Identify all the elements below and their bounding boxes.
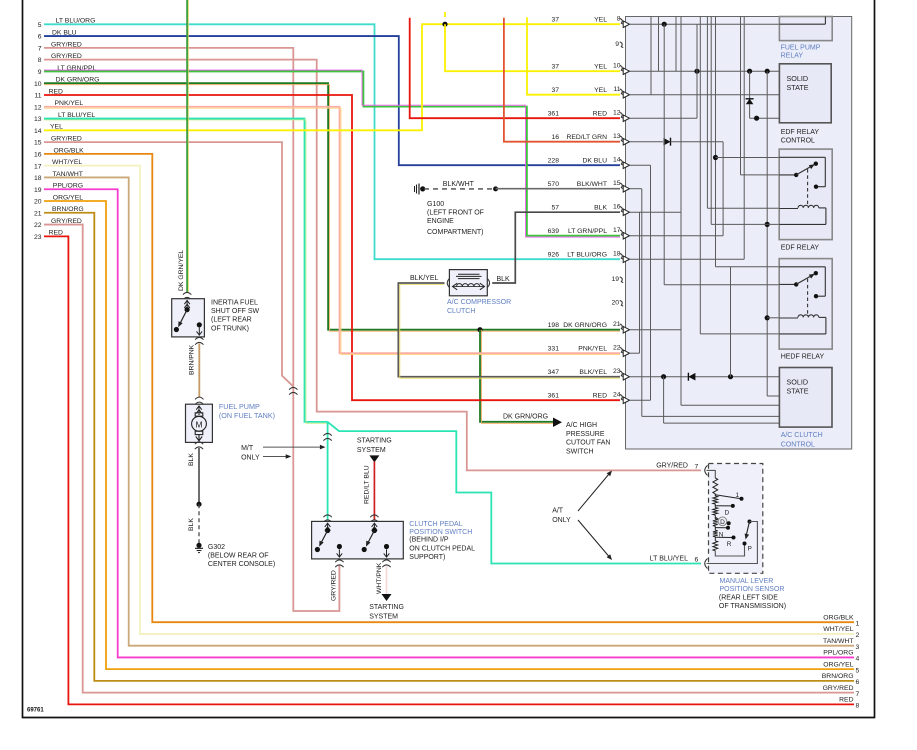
- svg-text:13: 13: [34, 116, 42, 123]
- left connector pin 17 label WHT/YEL: [34, 159, 82, 170]
- svg-text:INERTIA FUEL: INERTIA FUEL: [211, 299, 258, 306]
- net pin15 570 BLKWHT to A/C clutch control: [630, 189, 780, 417]
- label DK GRN/ORG on branch: [503, 414, 548, 421]
- svg-text:YEL: YEL: [594, 16, 607, 23]
- connector pin 8: [551, 16, 629, 28]
- label EDF RELAY: [781, 245, 820, 252]
- fuel pump relay box (cropped): [779, 17, 832, 41]
- svg-text:BLK: BLK: [188, 453, 195, 466]
- clutch switch pin GRY/RED contact: [337, 544, 343, 558]
- svg-text:STATE: STATE: [787, 83, 809, 92]
- wire LT BLU/YEL branch down to clutch pedal position switch: [327, 422, 329, 520]
- svg-text:(LEFT FRONT OF: (LEFT FRONT OF: [427, 210, 484, 217]
- inline connectors above clutch pedal switch: [323, 515, 378, 522]
- net pin23 347 BLKYEL with diode to A/C clutch control: [630, 373, 780, 381]
- EDF relay: [779, 149, 832, 240]
- label A/C HIGH PRESSURE CUTOUT FAN SWITCH: [566, 422, 610, 455]
- svg-text:37: 37: [551, 87, 559, 94]
- inline connector on LT BLU/YEL branch: [323, 433, 331, 440]
- left connector pin 20 label ORG/YEL: [34, 194, 83, 205]
- svg-text:8: 8: [617, 16, 621, 23]
- left connector pin 8 label GRY/RED: [38, 53, 82, 64]
- label BLK (near G302): [188, 518, 195, 531]
- connector pin 23: [548, 368, 630, 380]
- inertia switch output contact: [197, 322, 203, 335]
- wire PNK/YEL (row 12 to pin 22, 331): [44, 107, 620, 355]
- svg-text:23: 23: [34, 234, 42, 241]
- svg-text:24: 24: [613, 392, 621, 399]
- svg-text:5: 5: [38, 22, 42, 29]
- svg-text:SYSTEM: SYSTEM: [357, 447, 386, 454]
- clutch switch pin WHT/PNK contact: [384, 544, 390, 558]
- connector pin 13: [551, 133, 629, 145]
- svg-text:ORG/BLK: ORG/BLK: [823, 614, 854, 621]
- label STARTING SYSTEM (bottom): [369, 604, 404, 620]
- bottom rail label RED 8: [839, 697, 859, 710]
- svg-text:CONTROL: CONTROL: [781, 442, 815, 449]
- wire LT BLU/YEL (row 13, M/T clutch switch and A/T sensor pin 6): [44, 119, 328, 424]
- svg-text:926: 926: [548, 251, 560, 258]
- connector pin 21: [548, 321, 630, 333]
- label MANUAL LEVER POSITION SENSOR (REAR LEFT SIDE OF TRANSMISSION): [719, 578, 786, 610]
- wire LT BLU/YEL jog to manual lever position sensor pin 6: [328, 422, 701, 564]
- svg-text:6: 6: [38, 34, 42, 41]
- bottom rail label PPL/ORG 4: [823, 650, 859, 663]
- wire BLK (A/C clutch to pin 16, 57): [492, 212, 620, 283]
- connector pin 18: [548, 251, 630, 263]
- left connector pin 6 label DK BLU: [38, 29, 77, 40]
- svg-text:BRN/PNK: BRN/PNK: [189, 344, 196, 375]
- connector pin 16: [551, 204, 629, 216]
- wire ORG/BLK (row 16 to bottom rail 1): [44, 154, 854, 622]
- svg-text:347: 347: [548, 369, 560, 376]
- svg-text:OF TRANSMISSION): OF TRANSMISSION): [719, 603, 786, 610]
- svg-text:YEL: YEL: [594, 63, 607, 70]
- svg-text:6: 6: [856, 679, 860, 686]
- label LT BLU/YEL 6 (sensor pin): [650, 556, 699, 564]
- net pin13 16 RED/LTGRN with diode: [630, 138, 724, 146]
- inline connector at inertia switch input: [183, 292, 191, 299]
- left connector pin 21 label BRN/ORG: [34, 206, 84, 217]
- label G100 (LEFT FRONT OF ENGINE COMPARTMENT): [427, 201, 484, 236]
- connector pin 14: [548, 157, 630, 169]
- label EDF RELAY CONTROL: [781, 129, 820, 145]
- svg-text:DK BLU: DK BLU: [582, 157, 607, 164]
- net pin11 37YEL into EDF relay control: [630, 94, 780, 96]
- wire YEL branch to pin 10: [445, 24, 620, 71]
- label BLK: [497, 276, 511, 283]
- inline connectors below clutch pedal switch: [335, 560, 391, 567]
- bottom rail label ORG/BLK 1: [823, 614, 859, 627]
- svg-text:POSITION SENSOR: POSITION SENSOR: [720, 586, 785, 593]
- svg-text:G302: G302: [208, 544, 225, 551]
- wire BRN/PNK (inertia switch to fuel pump): [198, 344, 200, 398]
- svg-text:FUEL PUMP: FUEL PUMP: [781, 45, 821, 52]
- svg-text:RED/LT GRN: RED/LT GRN: [566, 134, 607, 141]
- PCM / relay panel background: [626, 17, 852, 450]
- wire RED/LT GRN (from top, 16 to pin 13): [504, 18, 620, 142]
- svg-text:10: 10: [34, 81, 42, 88]
- svg-text:(BELOW REAR OF: (BELOW REAR OF: [208, 553, 269, 560]
- svg-text:GRY/RED: GRY/RED: [331, 570, 338, 601]
- clutch coil symbol with arrows: [453, 283, 485, 290]
- svg-text:LT GRN/PPL: LT GRN/PPL: [568, 228, 607, 235]
- label BLK/WHT (over dashed segment): [443, 181, 475, 188]
- left connector pin 10 label DK GRN/ORG: [34, 77, 99, 88]
- label GRY/RED (clutch switch output): [331, 570, 338, 601]
- net HEDF coil feed: [767, 317, 779, 319]
- svg-text:D: D: [720, 519, 725, 526]
- svg-text:STARTING: STARTING: [369, 604, 404, 611]
- svg-text:RED: RED: [593, 392, 607, 399]
- svg-text:SUPPORT): SUPPORT): [409, 554, 445, 561]
- left connector pin 11 label RED: [34, 88, 63, 99]
- junction node on DK GRN/ORG: [477, 327, 482, 332]
- svg-text:A/C CLUTCH: A/C CLUTCH: [781, 432, 823, 439]
- ground G100 symbol: [415, 184, 426, 195]
- svg-text:69761: 69761: [27, 708, 44, 714]
- svg-text:GRY/RED: GRY/RED: [823, 685, 854, 692]
- bus vertical x730.5 (HEDF NO to pin23): [730, 267, 732, 377]
- svg-text:21: 21: [613, 321, 621, 328]
- svg-text:BLK: BLK: [594, 204, 607, 211]
- svg-text:7: 7: [695, 463, 699, 470]
- svg-text:STATE: STATE: [787, 387, 809, 396]
- top stub verticals: [651, 17, 676, 95]
- svg-text:A/T: A/T: [552, 508, 564, 515]
- label WHT/PNK: [376, 562, 383, 594]
- svg-text:D: D: [725, 510, 730, 517]
- sensor wiper to pin 6: [707, 522, 758, 564]
- wire DK GRN/ORG branch to A/C high pressure cutout fan switch: [480, 330, 553, 424]
- clutch switch blade 2: [362, 531, 375, 553]
- svg-text:37: 37: [551, 16, 559, 23]
- bottom rail label BRN/ORG 6: [822, 673, 860, 686]
- label M/T ONLY with arrows: [241, 445, 325, 462]
- wire LT BLU/ORG (row 5 to pin 18, 926): [44, 24, 620, 259]
- svg-text:BLK: BLK: [188, 518, 195, 531]
- fuel pump bottom pin arrow: [196, 435, 202, 441]
- svg-text:MANUAL LEVER: MANUAL LEVER: [720, 578, 774, 585]
- connector pin 12: [548, 110, 630, 122]
- A/C compressor clutch terminal brackets: [447, 278, 489, 288]
- svg-text:ORG/YEL: ORG/YEL: [823, 661, 853, 668]
- svg-text:P: P: [748, 546, 752, 553]
- svg-text:YEL: YEL: [594, 87, 607, 94]
- label FUEL PUMP RELAY: [781, 45, 821, 60]
- svg-text:CLUTCH PEDAL: CLUTCH PEDAL: [409, 521, 462, 528]
- bus vertical x697: [696, 24, 698, 118]
- net pin22 331 PNKYEL up bus: [630, 212, 640, 353]
- connector pin 15: [548, 180, 630, 192]
- wire RED/LT BLU (starting system to clutch switch): [373, 462, 375, 520]
- svg-text:9: 9: [615, 41, 619, 48]
- svg-text:6: 6: [695, 556, 699, 563]
- svg-text:SOLID: SOLID: [787, 74, 809, 83]
- left connector pin 19 label PPL/ORG: [34, 183, 83, 194]
- wire TAN/WHT (row 18 to bottom rail 3): [44, 177, 854, 645]
- svg-text:G100: G100: [427, 201, 444, 208]
- svg-text:EDF RELAY: EDF RELAY: [781, 245, 820, 252]
- svg-text:21: 21: [34, 210, 42, 217]
- svg-text:14: 14: [34, 128, 42, 135]
- svg-text:FUEL PUMP: FUEL PUMP: [219, 402, 260, 411]
- wire YEL from top to pin 11: [527, 17, 620, 94]
- svg-text:CLUTCH: CLUTCH: [447, 308, 475, 315]
- svg-text:SYSTEM: SYSTEM: [369, 614, 398, 621]
- svg-text:12: 12: [34, 104, 42, 111]
- svg-text:639: 639: [548, 228, 560, 235]
- connector pin 9: [615, 41, 623, 48]
- svg-text:8: 8: [856, 703, 860, 710]
- svg-text:14: 14: [613, 157, 621, 164]
- svg-text:BLK/YEL: BLK/YEL: [410, 275, 439, 282]
- sensor pin brackets: [705, 465, 708, 568]
- svg-text:570: 570: [548, 181, 560, 188]
- svg-text:5: 5: [856, 667, 860, 674]
- wire BLK/WHT dashed (G100 to splice): [424, 188, 493, 190]
- svg-text:3: 3: [856, 644, 860, 651]
- sensor tap 1: [715, 492, 743, 501]
- sensor tap D: [715, 504, 735, 517]
- wire PPL/ORG (row 19 to bottom rail 4): [44, 189, 854, 657]
- fuel pump top pin arrow: [196, 406, 202, 415]
- svg-text:18: 18: [613, 251, 621, 258]
- feed triangle from starting system: [369, 455, 379, 462]
- wire BRN/ORG (row 21 to bottom rail 6): [44, 213, 854, 681]
- manual lever position sensor dashed box: [709, 464, 763, 574]
- label BRN/PNK: [189, 344, 196, 375]
- left connector pin 16 label ORG/BLK: [34, 147, 84, 158]
- svg-text:361: 361: [548, 392, 560, 399]
- label BLK (below fuel pump): [188, 453, 195, 466]
- svg-text:ON CLUTCH PEDAL: ON CLUTCH PEDAL: [409, 545, 475, 552]
- bottom rail label ORG/YEL 5: [823, 661, 859, 674]
- wire DK GRN/ORG (row 10 to pin 21, 198): [44, 83, 620, 331]
- diode branch x749.6 (37YEL bus to solid state): [746, 71, 780, 121]
- splice node on BLK/WHT: [493, 186, 498, 191]
- svg-text:DK GRN/YEL: DK GRN/YEL: [178, 250, 185, 291]
- svg-text:23: 23: [613, 368, 621, 375]
- connector pin 11: [551, 86, 629, 98]
- left connector pin 9 label LT GRN/PPL: [38, 65, 97, 76]
- net HEDF coil return (bottom): [700, 333, 779, 335]
- clutch switch pin 2 arrow: [372, 523, 378, 533]
- svg-text:19: 19: [34, 187, 42, 194]
- svg-text:BLK: BLK: [497, 276, 511, 283]
- svg-text:331: 331: [548, 345, 560, 352]
- svg-text:WHT/YEL: WHT/YEL: [823, 626, 853, 633]
- svg-text:BLK/WHT: BLK/WHT: [577, 181, 607, 188]
- svg-text:ONLY: ONLY: [552, 517, 571, 524]
- svg-text:EDF RELAY: EDF RELAY: [781, 129, 820, 136]
- HEDF relay: [779, 259, 832, 350]
- net pin24 361RED: [630, 399, 651, 401]
- svg-text:11: 11: [34, 93, 41, 100]
- svg-text:PRESSURE: PRESSURE: [566, 431, 605, 438]
- inline connector above fuel pump: [195, 397, 203, 404]
- bus vertical x664 (pin8 to HEDF common): [663, 24, 665, 285]
- connector pin 19: [611, 276, 623, 283]
- left connector pin 12 label PNK/YEL: [34, 100, 83, 111]
- net EDF relay NO output: [716, 157, 780, 159]
- svg-text:361: 361: [548, 110, 560, 117]
- sensor tap R: [715, 536, 735, 549]
- svg-text:LT BLU/ORG: LT BLU/ORG: [567, 251, 607, 258]
- EDF relay control solid state box: [779, 64, 831, 123]
- svg-text:(LEFT REAR: (LEFT REAR: [211, 317, 252, 324]
- net HEDF relay common feed: [664, 284, 779, 286]
- wire YEL (row 14 up to pin 8 / 37 YEL bus): [44, 24, 620, 130]
- net pin16 57 BLK bus down: [630, 17, 780, 406]
- wire LT GRN/PPL (row 9 to pin 17, 639): [44, 70, 620, 237]
- svg-text:(REAR LEFT SIDE: (REAR LEFT SIDE: [719, 595, 778, 602]
- connector pin 22: [548, 345, 630, 357]
- sensor tap D circled: [715, 517, 730, 526]
- svg-text:HEDF RELAY: HEDF RELAY: [781, 353, 825, 360]
- bottom rail label GRY/RED 7: [823, 685, 860, 698]
- label FUEL PUMP (ON FUEL TANK): [219, 402, 275, 420]
- bus vertical x715.5 (top to HEDF NO): [713, 17, 779, 267]
- svg-text:15: 15: [613, 180, 621, 187]
- svg-text:RED: RED: [593, 110, 607, 117]
- svg-text:228: 228: [548, 157, 560, 164]
- svg-text:LT BLU/YEL: LT BLU/YEL: [650, 556, 688, 563]
- wire RED (row 11 to pin 24, 361): [44, 95, 620, 400]
- clutch switch pin 1 arrow: [325, 523, 331, 533]
- left connector pin 7 label GRY/RED: [38, 41, 82, 52]
- svg-text:SOLID: SOLID: [787, 378, 809, 387]
- net EDF coil return: [711, 17, 779, 225]
- bus vertical x767.2 (37YEL bus to A/C clutch control): [765, 71, 780, 396]
- label RED/LT BLU: [364, 465, 371, 504]
- svg-text:M/T: M/T: [241, 445, 254, 452]
- svg-text:8: 8: [38, 57, 42, 64]
- label HEDF RELAY: [781, 353, 825, 360]
- net EDF coil feed: [707, 17, 779, 209]
- left connector pin 13 label LT BLU/YEL: [34, 112, 95, 123]
- svg-text:CONTROL: CONTROL: [781, 138, 815, 145]
- sensor bottom to P contact: [715, 542, 752, 557]
- svg-text:12: 12: [613, 110, 621, 117]
- svg-text:16: 16: [34, 151, 42, 158]
- inline connector below inertia switch: [195, 337, 203, 344]
- arrow to starting system (bottom): [382, 594, 392, 601]
- label A/C CLUTCH CONTROL: [781, 432, 823, 448]
- diagram number 69761: [27, 708, 44, 714]
- wire DK BLU (row 6 to pin 14, 228): [44, 36, 620, 165]
- label INERTIA FUEL SHUT OFF SW (LEFT REAR OF TRUNK): [211, 299, 259, 332]
- left connector pin 15 label GRY/RED: [34, 136, 82, 147]
- label STARTING SYSTEM (feed): [357, 438, 392, 454]
- left connector pin 14 label YEL: [34, 124, 63, 135]
- svg-text:7: 7: [38, 45, 42, 52]
- label G302 (BELOW REAR OF CENTER CONSOLE): [208, 544, 275, 568]
- svg-text:15: 15: [34, 140, 42, 147]
- fuel pump box: [186, 404, 213, 442]
- inline connector on GRY/RED vertical: [289, 387, 297, 394]
- sensor tap N: [715, 526, 730, 539]
- svg-text:RELAY: RELAY: [781, 53, 804, 60]
- svg-text:STARTING: STARTING: [357, 438, 392, 445]
- label GRY/RED 7 (sensor pin): [656, 463, 698, 471]
- inertia switch blade: [174, 310, 187, 333]
- svg-text:4: 4: [856, 656, 860, 663]
- sensor wiper: [745, 520, 752, 540]
- bottom rail label TAN/WHT 3: [823, 638, 859, 651]
- label BLK/YEL: [410, 275, 439, 282]
- connector pin 24: [548, 392, 630, 404]
- svg-text:BLK/YEL: BLK/YEL: [579, 369, 607, 376]
- inertia fuel shut off switch box: [172, 299, 205, 337]
- inertia switch top pin arrow: [184, 300, 190, 312]
- wire DK GRN/YEL (from top to inertia fuel shut off switch): [187, 0, 188, 293]
- svg-text:WHT/PNK: WHT/PNK: [376, 562, 383, 594]
- YEL stub above junction: [444, 12, 446, 17]
- svg-text:R: R: [727, 541, 732, 548]
- inline connector below fuel pump: [195, 442, 203, 449]
- net pin10 37YEL into EDF relay control: [630, 69, 780, 74]
- wire BLK (fuel pump to splice): [198, 448, 200, 504]
- svg-text:17: 17: [34, 163, 42, 170]
- svg-text:PNK/YEL: PNK/YEL: [578, 345, 607, 352]
- wire GRY/RED (row 15, splice into row 7): [44, 142, 293, 386]
- svg-text:BRN/ORG: BRN/ORG: [822, 673, 854, 680]
- svg-text:16: 16: [613, 204, 621, 211]
- bus vertical x700 (top to HEDF coil return): [699, 17, 701, 334]
- svg-text:2: 2: [856, 632, 860, 639]
- bottom rail label WHT/YEL 2: [823, 626, 859, 639]
- ground G302 symbol: [195, 543, 203, 553]
- wire GRY/RED (row 7, to clutch pedal position switch): [44, 48, 339, 611]
- svg-text:57: 57: [551, 204, 559, 211]
- wire BLK/WHT (splice to pin 15, 570): [496, 188, 620, 190]
- label CLUTCH PEDAL POSITION SWITCH (BEHIND I/P ON CLUTCH PEDAL SUPPORT): [409, 521, 475, 561]
- svg-text:CUTOUT FAN: CUTOUT FAN: [566, 440, 610, 447]
- svg-text:DK GRN/ORG: DK GRN/ORG: [503, 414, 548, 421]
- svg-text:37: 37: [551, 63, 559, 70]
- wire ORG/YEL (row 20 to bottom rail 5): [44, 201, 854, 669]
- A/C compressor clutch box: [449, 270, 487, 296]
- svg-text:17: 17: [613, 227, 621, 234]
- svg-text:11: 11: [613, 86, 620, 93]
- junction node on YEL bus: [442, 22, 447, 27]
- svg-text:CENTER CONSOLE): CENTER CONSOLE): [208, 561, 275, 568]
- svg-text:20: 20: [611, 300, 619, 307]
- bus vertical x723 (pin13 to pin17): [722, 142, 724, 236]
- svg-text:PPL/ORG: PPL/ORG: [823, 650, 853, 657]
- net pin17 639 LTGRNPPL: [630, 235, 724, 237]
- left connector pin 5 label LT BLU/ORG: [38, 18, 96, 29]
- sensor resistor ladder: [707, 470, 718, 550]
- bus vertical x740.5 (top to EDF common): [741, 17, 780, 175]
- clutch plate lines: [456, 274, 482, 278]
- svg-text:16: 16: [551, 134, 559, 141]
- A/C clutch control solid state box: [779, 368, 832, 428]
- wire GRY/RED (row 22 to bottom rail 7): [44, 225, 854, 693]
- svg-text:7: 7: [856, 691, 860, 698]
- svg-text:22: 22: [34, 222, 42, 229]
- svg-text:OF TRUNK): OF TRUNK): [211, 325, 249, 332]
- svg-text:BLK/WHT: BLK/WHT: [443, 181, 475, 188]
- wire WHT/YEL (row 17 to bottom rail 2): [44, 166, 854, 634]
- svg-text:19: 19: [611, 276, 619, 283]
- clutch switch blade 1: [315, 531, 328, 553]
- svg-text:10: 10: [613, 63, 621, 70]
- fuel pump motor symbol: [192, 413, 207, 435]
- wire RED (row 23 to bottom rail 8): [44, 236, 854, 704]
- svg-text:198: 198: [548, 322, 560, 329]
